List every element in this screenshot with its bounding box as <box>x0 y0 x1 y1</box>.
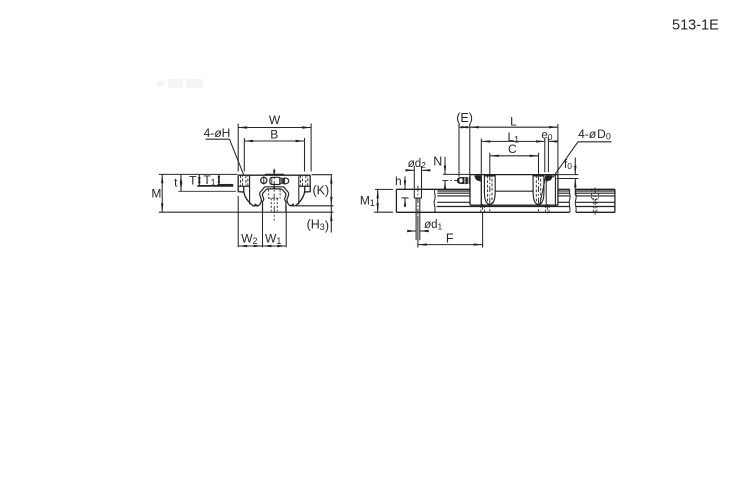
svg-text:T: T <box>189 173 197 187</box>
rail top edge <box>396 188 470 190</box>
left seal outer face <box>469 175 471 206</box>
block right outer edge and claw <box>305 175 311 192</box>
dimension L <box>470 124 558 175</box>
block top edge <box>238 174 310 176</box>
rail left end face <box>395 189 397 212</box>
svg-text:N: N <box>433 154 442 168</box>
dimension T1 <box>218 184 234 186</box>
block bottom right segment extended to (K)/(H3) dimension <box>290 205 333 207</box>
rail bolt hole 2 hidden <box>481 205 485 212</box>
block left outer edge and claw <box>238 175 244 192</box>
dimension (H3) <box>330 206 332 233</box>
dimension (E) <box>459 124 470 177</box>
svg-text:4-øH: 4-øH <box>204 126 231 140</box>
svg-text:e0: e0 <box>541 130 552 142</box>
dimension (K) <box>312 175 333 206</box>
dimension M1 <box>374 189 393 212</box>
svg-text:(H3): (H3) <box>307 218 329 234</box>
grease nipple front view <box>270 177 289 184</box>
dimension N <box>443 157 470 187</box>
dimension t <box>178 174 236 191</box>
block mounting bolt hole boss 1 <box>484 175 495 205</box>
rail right end face <box>614 189 616 212</box>
dimension B <box>244 138 304 172</box>
rail groove lines <box>437 191 615 207</box>
block left taper curve to bottom <box>244 192 253 206</box>
rail bolt hole 1 centerline <box>417 186 419 216</box>
svg-text:C: C <box>508 142 517 156</box>
svg-text:ød1: ød1 <box>424 219 442 231</box>
dimension phi-d2 <box>407 166 428 189</box>
dimension F <box>418 214 483 248</box>
dimension phi-d1 <box>409 212 427 240</box>
dimension e0 <box>548 138 554 173</box>
rail bottom edge <box>396 211 569 213</box>
dimension h <box>402 176 409 205</box>
svg-text:L: L <box>510 114 517 128</box>
block mounting bolt hole boss 2 <box>533 175 544 205</box>
dimension W <box>238 124 311 172</box>
left body face <box>480 175 482 206</box>
block inner horizontal edge between bolt bosses <box>495 190 533 192</box>
dimension T <box>197 185 233 187</box>
dimension W2 <box>238 196 286 247</box>
seal contour (outer arch) <box>258 187 290 206</box>
section break S-line on rail <box>434 189 435 212</box>
nipple horizontal centerline <box>443 179 459 181</box>
svg-text:(E): (E) <box>456 111 473 125</box>
right seal inner face <box>554 175 556 206</box>
grease nipple side view (dark) <box>457 177 467 184</box>
svg-text:h: h <box>395 174 402 188</box>
rail bolt hole 4 hidden <box>592 189 599 212</box>
svg-text:ød2: ød2 <box>408 158 426 170</box>
diagonal line at right end of block <box>540 175 546 204</box>
flange bolt holes hidden lines (4-phiH) <box>241 175 308 186</box>
block right flange bottom line <box>299 185 310 187</box>
end seal wedge right (dark) <box>546 175 553 181</box>
bolt hole openings at block top (dark) <box>484 174 495 176</box>
block left flange bottom line <box>238 185 249 187</box>
dimension M <box>159 174 334 212</box>
rail bolt hole 1 sectioned <box>414 189 421 212</box>
block top lip around nipple <box>265 173 284 175</box>
rail mounting hole hidden lines inside rail section <box>268 189 280 211</box>
svg-text:(K): (K) <box>312 183 329 197</box>
bolt hole circle on block face <box>261 177 267 183</box>
block side view outline <box>470 175 558 206</box>
end seal wedge left (dark) <box>474 175 481 181</box>
block right taper curve to bottom <box>296 192 305 206</box>
svg-text:513-1E: 513-1E <box>672 18 719 34</box>
rail break pair <box>568 189 571 212</box>
right seal outer face <box>557 175 559 206</box>
block bottom left segment <box>252 205 258 207</box>
block bottom edge <box>470 204 558 206</box>
svg-text:B: B <box>270 128 278 142</box>
vertical centerline of rail/nipple <box>273 169 275 221</box>
svg-text:W: W <box>269 113 281 127</box>
svg-text:M: M <box>151 186 161 200</box>
rail bolt hole 3 hidden <box>546 205 550 212</box>
faint ghost watermark <box>157 79 203 88</box>
dimension L1 <box>481 139 545 175</box>
dimension f0 <box>557 158 579 196</box>
rail cross-section profile (inner arch) <box>262 189 286 212</box>
seal contact triangles <box>254 203 258 206</box>
centerline arrowheads <box>273 170 276 175</box>
dimension C <box>490 153 539 175</box>
block left inner vertical <box>249 175 251 204</box>
svg-text:F: F <box>446 231 454 245</box>
right body face <box>545 175 547 206</box>
svg-text:f0: f0 <box>564 159 572 171</box>
block top edge <box>470 174 558 176</box>
block right inner vertical <box>298 175 300 204</box>
